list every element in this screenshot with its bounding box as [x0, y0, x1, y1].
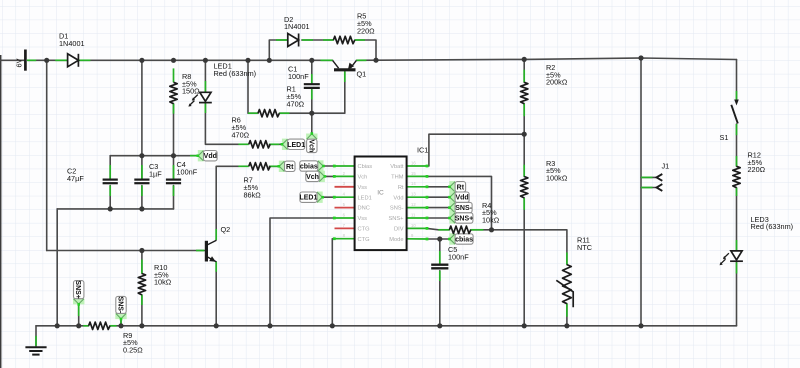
svg-text:IC: IC — [377, 190, 384, 197]
svg-text:DNC: DNC — [358, 206, 370, 212]
junction Vbatt wire/R2/R3 — [522, 132, 527, 137]
wire R6 right pin — [269, 143, 282, 145]
green Q1 emitter pin — [356, 59, 366, 61]
junction Q2 base rail/R10 — [139, 248, 144, 253]
label R8 — [182, 72, 200, 96]
junction Vdd rail/R8/C4 — [171, 153, 176, 158]
resistor R6 — [249, 141, 270, 148]
wire IC pin16 Vbatt to R2R3 — [427, 134, 524, 166]
wire junction to cbias flag — [440, 238, 450, 240]
wire C5 bottom pin — [439, 271, 441, 326]
junction R4/THM/R11 — [489, 227, 494, 232]
junction bus/SNS-/R9 — [118, 323, 123, 328]
wire IC pin6 Vss to bus — [270, 218, 334, 326]
label D2 — [284, 15, 310, 31]
green SNS+ stem lower — [78, 304, 80, 316]
svg-text:DIV: DIV — [394, 227, 404, 233]
junction bus/x57 — [55, 323, 60, 328]
green C1 bottom pin — [311, 89, 313, 99]
wire R10 lower pin — [141, 295, 143, 326]
svg-text:SNS+: SNS+ — [455, 216, 473, 223]
capacitor C3 — [134, 180, 149, 184]
resistor R7 — [249, 163, 270, 170]
junction bus/J1 — [638, 323, 643, 328]
wire Vdd rail — [110, 155, 198, 157]
wire pin13 to Vdd flag — [427, 196, 449, 198]
svg-text:470Ω: 470Ω — [232, 130, 250, 139]
green R11 bottom pin — [566, 304, 568, 317]
green LED1 top pin — [204, 81, 206, 92]
svg-text:1N4001: 1N4001 — [59, 39, 85, 48]
junction 6V/D1/left-vertical — [44, 58, 49, 63]
svg-text:220Ω: 220Ω — [748, 165, 766, 174]
svg-text:CTG: CTG — [358, 237, 370, 243]
green C1 top pin — [311, 74, 313, 84]
net flag Rt at pin14 — [449, 181, 455, 192]
green R3 bottom pin — [523, 198, 525, 210]
resistor R10 — [138, 274, 145, 295]
junction caps rail/C3 — [139, 206, 144, 211]
wire R5 branch down-right — [355, 40, 376, 60]
net flag SNS+ above bus — [73, 299, 84, 305]
net flag Vch to pin2 — [319, 171, 325, 182]
svg-text:11: 11 — [411, 212, 416, 217]
svg-text:Vdd: Vdd — [455, 195, 468, 202]
green S1 bottom pin — [736, 124, 738, 135]
svg-text:SNS-: SNS- — [117, 297, 124, 314]
thermistor R11 NTC mark — [556, 280, 573, 307]
label J1 — [662, 162, 670, 171]
wire C1 top pin — [311, 60, 313, 84]
net flag SNS- above bus — [115, 313, 126, 319]
green IC pin 4 LED1 stub — [334, 196, 355, 198]
wire Q2 base rail — [47, 250, 205, 252]
green D2 anode pin — [276, 39, 288, 41]
svg-text:cbias: cbias — [455, 237, 473, 244]
green C2 top pin — [109, 165, 111, 179]
green R7 right pin — [269, 165, 277, 167]
green Q2 collector pin — [215, 229, 217, 240]
svg-text:100nF: 100nF — [177, 167, 198, 176]
junction main/R1-feed — [245, 58, 250, 63]
svg-text:470Ω: 470Ω — [287, 99, 305, 108]
transistor Q1 — [333, 61, 357, 70]
green R12 bottom pin — [736, 188, 738, 196]
svg-text:10kΩ: 10kΩ — [482, 216, 500, 225]
wire vertical x57 to bus — [56, 209, 58, 326]
green R6 right pin — [269, 143, 279, 145]
svg-text:J1: J1 — [662, 162, 670, 171]
resistor R12 — [733, 166, 740, 187]
green ground pin — [35, 336, 37, 346]
net flag Rt at R7 — [279, 161, 285, 172]
green IC pin 1 Cbias stub — [334, 165, 355, 167]
label R6 — [232, 116, 250, 140]
label R4 — [482, 201, 500, 225]
svg-text:SNS-: SNS- — [390, 206, 404, 212]
label Q2 — [221, 225, 231, 234]
junction base rail/R1/C1/Vch — [309, 111, 314, 116]
diode D2 — [288, 34, 299, 47]
label R10 — [154, 263, 172, 287]
wire cbias flag to pin1 — [324, 165, 335, 167]
net flag Vdd at caps rail — [198, 150, 204, 161]
svg-text:100kΩ: 100kΩ — [546, 174, 568, 183]
green R5 right pin — [355, 39, 365, 41]
green IC pin 11 SNS+ stub — [407, 217, 427, 219]
wire J1 pin2 stub — [641, 176, 657, 178]
wire ground stem — [35, 326, 37, 346]
svg-text:47µF: 47µF — [67, 174, 84, 183]
resistor R9 — [89, 322, 110, 329]
net flag LED1 to pin4 — [317, 192, 323, 203]
wire R3 bottom pin — [523, 198, 525, 326]
svg-text:LED1: LED1 — [287, 142, 305, 149]
IC1 pin numbers — [343, 160, 417, 238]
svg-text:Rt: Rt — [286, 164, 294, 171]
green R10 top pin — [141, 260, 143, 274]
wire D2-R5 middle — [302, 39, 334, 41]
green R8 top pin — [173, 68, 175, 82]
svg-text:Vch: Vch — [306, 174, 319, 181]
svg-text:NTC: NTC — [577, 243, 592, 252]
green LED3 top pin — [736, 240, 738, 251]
wire J1 pin1 stub — [641, 187, 657, 189]
svg-text:Rt: Rt — [398, 185, 404, 191]
resistor R4 — [449, 226, 470, 233]
net flag Vdd at pin13 — [449, 192, 455, 203]
net flag cbias at pin9 — [449, 233, 455, 244]
wire R8 lower pin to rail — [173, 104, 175, 156]
wire R7 right pin — [269, 165, 278, 167]
wire C1 bottom pin — [311, 89, 313, 113]
svg-text:13: 13 — [411, 192, 416, 197]
label R7 — [244, 176, 262, 200]
wire pin12 to SNS- flag — [427, 207, 449, 209]
wire Vch flag to pin2 — [325, 175, 334, 177]
wire C3 vertical — [141, 60, 143, 179]
wire R2 bottom pin — [523, 104, 525, 135]
svg-text:Vbatt: Vbatt — [390, 164, 404, 170]
wire 6V feed — [0, 59, 25, 61]
svg-text:Q2: Q2 — [221, 225, 231, 234]
junction main/R5-branch/Q1 — [373, 58, 378, 63]
wire ground bus right — [110, 325, 737, 327]
label C4 — [177, 160, 198, 176]
svg-text:Red (633nm): Red (633nm) — [751, 222, 794, 231]
green C4 bottom pin — [173, 186, 175, 197]
net flag LED1 at R6 — [282, 139, 288, 150]
svg-text:Mode: Mode — [389, 237, 403, 243]
svg-text:SNS-: SNS- — [455, 205, 472, 212]
wire pin14 to Rt flag — [427, 186, 449, 188]
resistor R1 — [258, 110, 279, 117]
label D1 — [59, 32, 85, 48]
wire R2 top pin — [523, 59, 525, 82]
junction bus/SNS+ — [76, 323, 81, 328]
green IC pin 16 Vbatt stub — [407, 165, 427, 167]
label R1 — [287, 85, 305, 109]
green R2 top pin — [523, 70, 525, 83]
svg-text:200kΩ: 200kΩ — [546, 78, 568, 87]
svg-text:Q1: Q1 — [357, 70, 367, 79]
wire R10 upper pin — [141, 251, 143, 274]
junction main/R2 — [522, 57, 527, 62]
wire R1 feed vertical x248 — [248, 60, 258, 113]
green IC pin 2 Vch stub — [334, 175, 355, 177]
svg-text:THM: THM — [391, 175, 404, 181]
green IC pin 15 THM stub — [407, 175, 427, 177]
svg-text:Cbias: Cbias — [358, 164, 373, 170]
wire R3 top pin — [523, 134, 525, 176]
svg-text:S1: S1 — [720, 133, 729, 142]
svg-text:IC1: IC1 — [417, 146, 428, 155]
green R5 left pin — [323, 39, 333, 41]
green R3 top pin — [523, 165, 525, 177]
green R4 left pin — [438, 229, 449, 231]
label S1 — [720, 133, 729, 142]
wire left vertical x46 — [46, 60, 48, 250]
green R4 right pin — [471, 229, 484, 231]
green C3 bottom pin — [141, 186, 143, 197]
voltage source 6V bar — [24, 50, 27, 71]
svg-text:Vch: Vch — [307, 139, 314, 152]
junction main/LED1 — [203, 58, 208, 63]
green S1 top pin — [736, 91, 738, 101]
svg-text:220Ω: 220Ω — [357, 26, 375, 35]
green D2 cathode pin — [302, 39, 313, 41]
capacitor C5 — [431, 265, 448, 269]
IC pin end markers — [333, 165, 429, 241]
svg-text:10kΩ: 10kΩ — [154, 278, 172, 287]
label Q1 — [357, 70, 367, 79]
green R1 left pin — [248, 112, 258, 114]
green R9 left pin — [83, 325, 88, 327]
wire junction to R11 corner — [492, 230, 567, 265]
green R10 bottom pin — [141, 295, 143, 305]
switch S1 — [731, 100, 739, 124]
green IC pin 13 Vdd stub — [407, 196, 427, 198]
green R7 left pin — [238, 165, 248, 167]
junction bus/R11 — [564, 323, 569, 328]
svg-text:86kΩ: 86kΩ — [244, 190, 262, 199]
green LED3 bottom pin — [736, 262, 738, 273]
wire main net segment B — [78, 59, 332, 61]
label C1 — [288, 65, 309, 81]
junction main/C3 — [139, 58, 144, 63]
svg-text:SNS+: SNS+ — [388, 216, 404, 222]
green C5 bottom pin — [439, 271, 441, 281]
thermistor R11 body — [563, 265, 572, 304]
wire C5 top pin — [439, 239, 441, 265]
wire R1 right to junction — [279, 112, 311, 114]
LED LED3 — [720, 251, 743, 265]
diode D1 — [68, 54, 79, 67]
junction bus/IC-pin6 — [267, 323, 272, 328]
svg-text:15: 15 — [411, 171, 416, 176]
label C5 — [448, 245, 469, 261]
wire S1 to R12 — [736, 124, 738, 166]
red IC pin 7 CTG stub — [335, 227, 355, 229]
junction main/D2-branch — [267, 58, 272, 63]
green C4 top pin — [173, 165, 175, 179]
green J1 pin2 stub — [641, 176, 653, 178]
svg-text:Red (633nm): Red (633nm) — [214, 69, 257, 78]
svg-text:12: 12 — [411, 202, 416, 207]
wire S1 top pin — [736, 60, 738, 102]
green Vdd flag wire — [190, 155, 198, 157]
green Q2 base pin — [196, 250, 204, 252]
junction main/J1 — [638, 55, 643, 60]
junction bus/R3 — [522, 323, 527, 328]
green IC pin 8 CTG stub — [334, 238, 355, 240]
green Q2 emitter pin — [215, 262, 217, 272]
resistor R8 — [170, 82, 177, 103]
wire IC pin15 THM — [427, 176, 492, 229]
green C3 top pin — [141, 165, 143, 179]
wire D2 branch up-left — [269, 40, 288, 60]
junction bus/IC-pin8 — [330, 323, 335, 328]
green IC pin 12 SNS- stub — [407, 207, 427, 209]
wire SNS+ stem — [78, 304, 80, 325]
svg-text:14: 14 — [411, 181, 416, 186]
green 6V pin — [27, 59, 36, 61]
svg-text:cbias: cbias — [300, 164, 318, 171]
green IC pin 10 DIV stub — [407, 227, 427, 229]
capacitor C1 — [304, 84, 320, 88]
junction bus/Q2-emitter — [214, 323, 219, 328]
wire LED1 top pin — [204, 60, 206, 92]
green J1 pin1 stub — [641, 187, 653, 189]
svg-text:Vdd: Vdd — [393, 195, 403, 201]
svg-text:Rt: Rt — [457, 184, 465, 191]
green Q1 base pin — [344, 72, 346, 83]
svg-text:0.25Ω: 0.25Ω — [123, 346, 143, 355]
label R9 — [123, 331, 143, 355]
wire R12 to LED3 — [736, 188, 738, 251]
junction Vdd rail/C3 — [139, 153, 144, 158]
green IC pin 6 Vss stub — [334, 217, 355, 219]
svg-text:Vch: Vch — [358, 175, 368, 181]
wire pin11 to SNS+ flag — [427, 217, 449, 219]
green R6 left pin — [238, 143, 248, 145]
transistor Q2 — [206, 240, 216, 261]
wire LED1 bottom to R6 — [205, 104, 238, 145]
green Q1 collector pin — [321, 59, 333, 61]
label R11 — [577, 235, 592, 251]
label C3 — [149, 162, 162, 178]
wire caps ground rail — [57, 208, 173, 210]
wire SNS- stem — [120, 319, 122, 326]
svg-text:LED1: LED1 — [299, 195, 317, 202]
resistor R2 — [521, 82, 528, 103]
label R5 — [357, 12, 375, 36]
junction main/R8 — [171, 58, 176, 63]
wire IC pin8 CTG to bus — [331, 239, 333, 326]
green C2 bottom pin — [109, 186, 111, 197]
green LED1 bottom pin — [204, 104, 206, 113]
svg-text:10: 10 — [411, 223, 416, 228]
label C2 — [67, 167, 84, 183]
wire LED1 flag to pin4 — [323, 196, 334, 198]
wire pin9 Mode to junction — [427, 238, 440, 240]
net flag cbias to pin1 — [318, 160, 324, 171]
green R2 bottom pin — [523, 104, 525, 117]
green R12 top pin — [736, 156, 738, 166]
net flag Vch below Q1 base rail — [306, 134, 317, 140]
svg-text:6V: 6V — [15, 58, 24, 67]
green R9 right pin — [110, 325, 117, 327]
junction bus/C5 — [437, 323, 442, 328]
net flag SNS- at pin12 — [449, 202, 455, 213]
wire C3 bottom pin — [141, 186, 143, 209]
junction main/C1/Q1 — [309, 58, 314, 63]
label R2 — [546, 63, 568, 87]
wire C4 top pin — [173, 156, 175, 180]
svg-text:100nF: 100nF — [288, 72, 309, 81]
LED LED1 — [188, 92, 211, 106]
wire C2 top pin — [109, 156, 111, 180]
green IC pin 9 Mode stub — [407, 238, 427, 240]
svg-text:SNS+: SNS+ — [74, 280, 81, 298]
ground symbol — [25, 347, 46, 354]
IC1 pin names — [358, 164, 405, 243]
wire C4 bottom pin — [173, 186, 175, 209]
svg-text:100nF: 100nF — [448, 253, 469, 262]
wire pin10 DIV to R4 — [427, 228, 449, 229]
wire main net segment C — [356, 58, 736, 60]
green IC pin 14 Rt stub — [407, 186, 427, 188]
resistor R5 — [333, 36, 354, 43]
wire J1 vertical — [640, 58, 642, 326]
svg-text:Vss: Vss — [358, 216, 368, 222]
svg-text:16: 16 — [411, 160, 416, 165]
wire R11 bottom pin — [566, 304, 568, 326]
op-amp/IC IC1 body — [355, 157, 407, 251]
label R3 — [546, 159, 568, 183]
label LED1 — [214, 61, 257, 77]
wire main net segment A — [28, 59, 68, 61]
label LED3 — [751, 215, 794, 231]
svg-text:Vdd: Vdd — [204, 153, 217, 160]
junction Mode/cbias/C5 — [437, 236, 442, 241]
green D1 anode pin — [55, 59, 67, 61]
green SNS- stem lower — [120, 319, 122, 326]
wire Q1 base rail — [312, 72, 345, 114]
svg-text:Vss: Vss — [358, 185, 368, 191]
junction caps rail/C2 — [108, 206, 113, 211]
connector J1 pin1 prong — [657, 184, 663, 191]
wire Vch flag stem — [311, 113, 313, 133]
net flag SNS+ at pin11 — [449, 212, 455, 223]
capacitor C2 — [103, 180, 118, 184]
red IC pin 3 Vss stub — [335, 186, 355, 188]
red IC pin 5 DNC stub — [335, 207, 355, 209]
green D1 cathode pin — [79, 59, 91, 61]
label R12 — [748, 150, 766, 174]
wire LED3 to bus — [736, 262, 738, 326]
wire Q2 emitter to bus — [215, 262, 217, 326]
connector J1 pin2 prong — [657, 174, 663, 181]
green C5 top pin — [439, 251, 441, 265]
junction bus/R10 — [139, 323, 144, 328]
green R8 bottom pin — [173, 104, 175, 114]
svg-text:LED1: LED1 — [358, 195, 372, 201]
canvas frame edge line — [0, 55, 2, 368]
green R1 right pin — [279, 112, 289, 114]
capacitor C4 — [166, 180, 181, 184]
green R11 top pin — [566, 253, 568, 265]
